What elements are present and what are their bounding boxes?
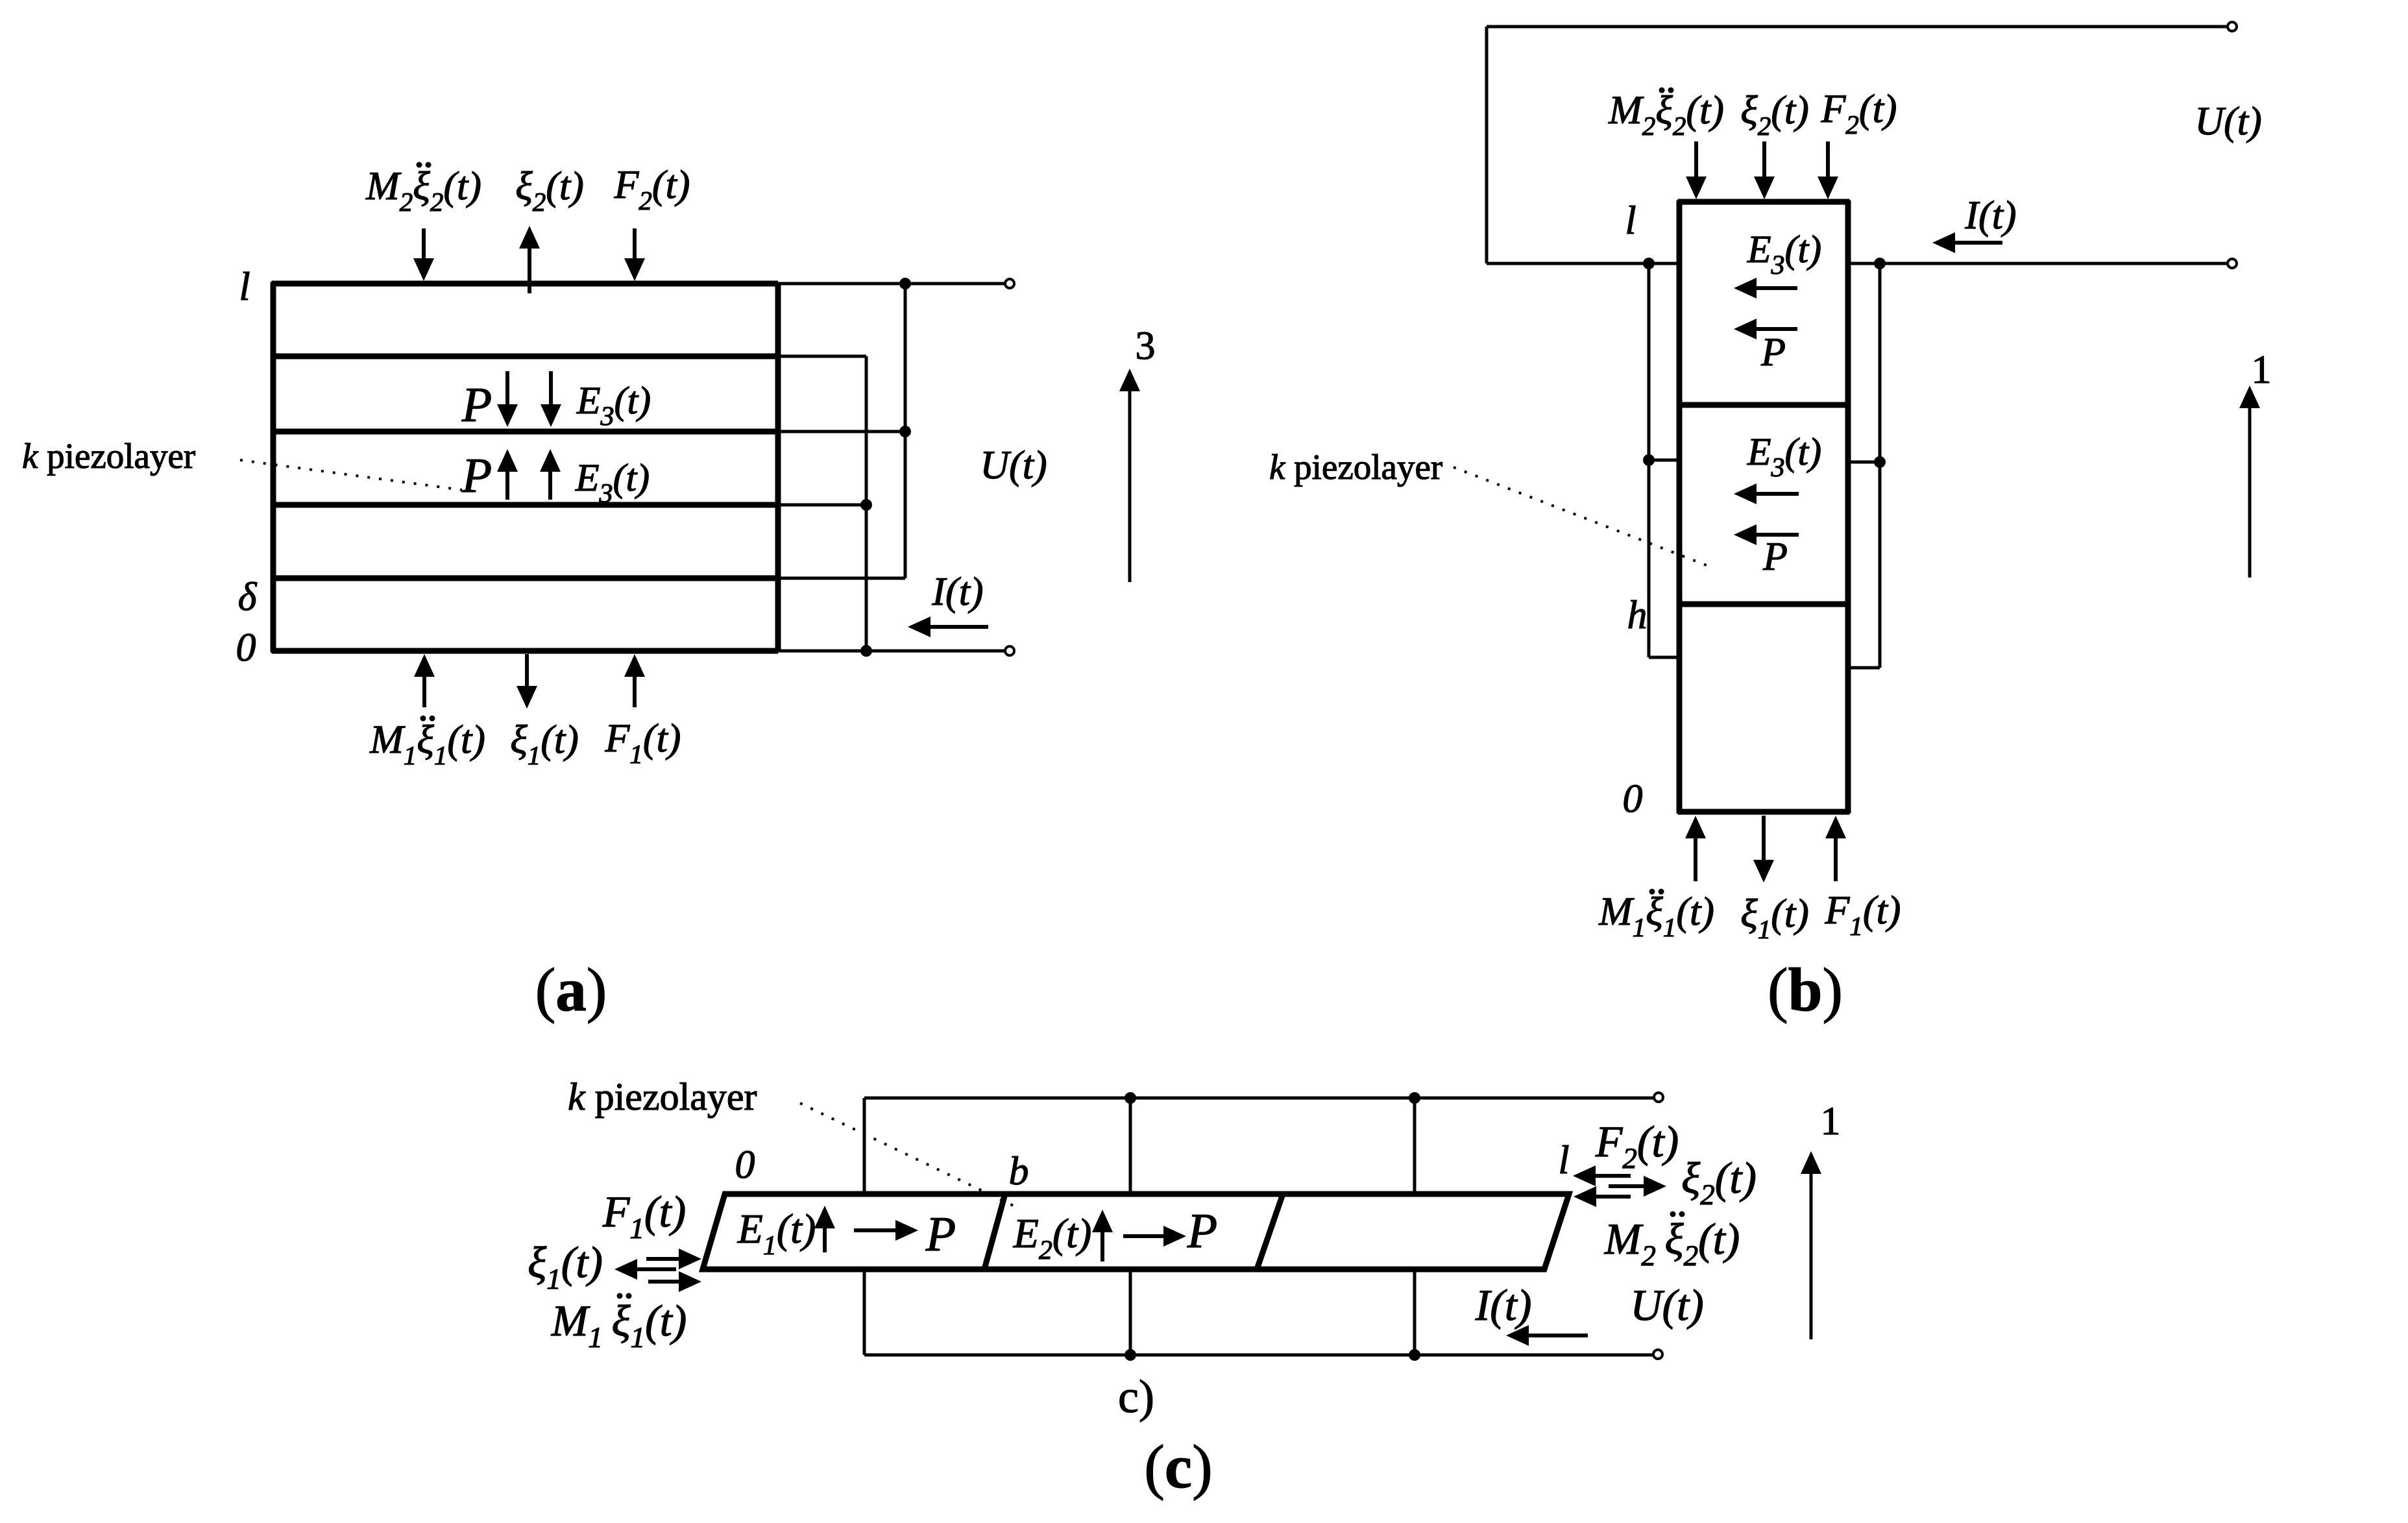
terminal: lower (c) [1653, 1350, 1662, 1359]
electrode wire 2 upper (c) [1129, 1098, 1132, 1194]
terminal: lower (b) [2228, 259, 2237, 268]
svg-text:M1​ ξ1​(t): M1​ ξ1​(t) [551, 1296, 687, 1354]
stack (a) electrode line 3 [272, 429, 779, 435]
arrow P left seg1 (b) [1755, 327, 1797, 331]
svg-text:ξ2​(t): ξ2​(t) [1681, 1153, 1757, 1211]
svg-text:P: P [1760, 330, 1786, 374]
node: bus A / electrode 3 [899, 426, 911, 437]
svg-text:P: P [1187, 1204, 1217, 1258]
svg-text:k piezolayer: k piezolayer [1269, 447, 1442, 487]
arrow E left 1 seg2 (b) [1755, 492, 1799, 496]
node: bus B / bottom wire [860, 645, 872, 657]
arrow I(t) left (c) [1527, 1334, 1588, 1337]
stub left tap 2 (b) [1649, 459, 1679, 462]
electrode wire 2 lower (c) [1129, 1269, 1132, 1355]
svg-text:l: l [1558, 1138, 1569, 1182]
node: bus B / electrode 4 [860, 499, 872, 511]
arrow: xi2(t) up (a) [528, 247, 531, 293]
arrow P up 1 (a) [505, 470, 509, 500]
stack (a) electrode line 2 [272, 354, 779, 359]
svg-text:M2​ ξ2​(t): M2​ ξ2​(t) [1604, 1214, 1740, 1272]
node: bottom rail 3 (c) [1409, 1349, 1420, 1361]
stack (b) bottom edge (0) [1678, 809, 1850, 815]
svg-text:k piezolayer: k piezolayer [568, 1075, 757, 1118]
arrow: F1(t) up (a) [633, 676, 637, 707]
svg-text:F1​(t): F1​(t) [602, 1187, 686, 1245]
arrow P down 1 (a) [505, 371, 509, 406]
svg-text:δ: δ [238, 575, 258, 619]
wire: electrode 2 to bus B [778, 355, 866, 358]
arrow I(t) left (b) [1954, 241, 2002, 245]
terminal: upper (c) [1654, 1093, 1663, 1102]
svg-text:P: P [461, 378, 492, 432]
arrow I(t) left (a) [929, 625, 988, 629]
terminal: lower (a) [1005, 646, 1014, 655]
node: right bus tap1 (b) [1874, 258, 1886, 269]
arrow F2 down (b) [1826, 141, 1830, 178]
svg-text:1: 1 [1821, 1099, 1841, 1143]
arrow F2 left (c) [1594, 1174, 1631, 1178]
svg-text:I(t): I(t) [1475, 1280, 1532, 1330]
bus left jog (b) [1649, 656, 1679, 659]
leader dotted line (a) [240, 460, 462, 490]
arrow: F2(t) down (a) [633, 228, 637, 260]
wire: left tap 1 (b) [1487, 262, 1679, 265]
svg-text:1: 1 [2252, 348, 2272, 392]
node: bottom rail 2 (c) [1125, 1349, 1136, 1361]
svg-text:U(t): U(t) [1630, 1280, 1703, 1330]
arrow: xi1(t) down (a) [525, 654, 529, 687]
bus right (b) [1879, 263, 1882, 668]
axis arrow 3 (a) [1128, 390, 1132, 582]
stack (a) top electrode line (l) [272, 281, 779, 287]
svg-text:l: l [1625, 199, 1636, 243]
terminal: upper (a) [1005, 279, 1014, 288]
arrow: M2 xidd2(t) down (a) [422, 228, 426, 260]
wire: left feed vertical (b) [1485, 27, 1489, 263]
svg-text:l: l [239, 265, 250, 309]
stack (a) right edge [775, 282, 781, 653]
arrow E left 1 seg1 (b) [1755, 286, 1797, 290]
svg-text:P: P [925, 1207, 956, 1261]
bus A (odd electrodes) [904, 284, 907, 578]
svg-text:c): c) [1118, 1371, 1154, 1422]
arrow M1 up (b) [1694, 837, 1697, 881]
arrow P left seg2 (b) [1755, 533, 1799, 537]
stack (b) divider 1 [1678, 402, 1850, 408]
arrow xi1 down (b) [1762, 816, 1766, 861]
arrow xi2 down (b) [1762, 141, 1766, 178]
electrode wire 1 lower (c) [863, 1269, 866, 1355]
svg-text:(b): (b) [1768, 955, 1843, 1024]
arrow E up 2 (a) [548, 470, 552, 500]
stack (a) left edge [271, 282, 276, 653]
arrow P right cell1 (c) [854, 1228, 897, 1232]
svg-text:3: 3 [1136, 324, 1156, 368]
terminal: upper (b) [2228, 22, 2237, 31]
wire: right tap 1 to terminal (b) [1848, 262, 2228, 265]
svg-text:U(t): U(t) [980, 443, 1047, 487]
arrow M2 down (b) [1694, 141, 1698, 178]
ddots over xi1 bottom (a) [420, 716, 426, 722]
arrow P right cell2 (c) [1123, 1234, 1165, 1238]
top rail (c) [864, 1097, 1653, 1100]
svg-text:0: 0 [1623, 777, 1643, 821]
arrow F1 right (c) [646, 1257, 680, 1261]
stack (b) right edge [1845, 201, 1851, 814]
stack (b) divider 2 (h) [1678, 602, 1850, 607]
axis arrow 1 (b) [2248, 407, 2252, 578]
svg-text:P: P [1762, 535, 1788, 579]
bus right jog (b) [1848, 666, 1880, 670]
svg-text:I(t): I(t) [1964, 193, 2016, 238]
wire: electrode 5 to bus A [778, 577, 905, 580]
arrow E down 2 (a) [549, 371, 553, 406]
ddots over xi2 (b) [1659, 88, 1665, 93]
bar divider 2 (c) [1257, 1194, 1283, 1269]
svg-text:b: b [1009, 1149, 1029, 1193]
wire: bottom electrode to lower terminal [778, 650, 1004, 653]
arrow F1 up (b) [1834, 837, 1838, 881]
axis arrow 1 (c) [1810, 1173, 1813, 1339]
svg-text:h: h [1627, 593, 1648, 637]
arrow xi2 right (c) [1609, 1184, 1645, 1188]
svg-text:0: 0 [735, 1143, 755, 1187]
svg-text:k piezolayer: k piezolayer [22, 436, 195, 476]
wire: top electrode to upper terminal [778, 282, 1004, 286]
svg-text:0: 0 [236, 626, 256, 670]
svg-text:ξ1​(t): ξ1​(t) [528, 1237, 603, 1295]
svg-text:I(t): I(t) [931, 570, 983, 614]
svg-text:(c): (c) [1144, 1432, 1212, 1501]
leader dotted line (b) [1453, 467, 1713, 568]
stack (b) left edge [1677, 201, 1683, 814]
wire: electrode 3 to bus A [778, 430, 905, 433]
stack (b) top edge (l) [1678, 199, 1850, 205]
svg-text:F2​(t): F2​(t) [1595, 1117, 1679, 1175]
arrow xi1 left (c) [636, 1267, 676, 1271]
arrow E up cell2 (c) [1101, 1231, 1104, 1261]
ddots over xi1 (c) [617, 1293, 623, 1299]
node: top rail 2 (c) [1125, 1092, 1136, 1104]
bus B (even electrodes) [865, 356, 868, 651]
stub right tap 2 (b) [1848, 461, 1880, 464]
ddots over xi2 top (a) [417, 162, 422, 168]
bar outline (c) [703, 1194, 1569, 1269]
node: right bus tap2 (b) [1874, 456, 1886, 468]
electrode wire 3 lower (c) [1413, 1269, 1417, 1355]
ddots over xi2 (c) [1670, 1212, 1676, 1217]
leader dotted line (c) [800, 1103, 1019, 1208]
stack (a) electrode line 4 [272, 502, 779, 508]
ddots over xi1 (b) [1649, 889, 1655, 895]
bus left (b) [1648, 263, 1651, 657]
node: top rail 3 (c) [1409, 1092, 1420, 1104]
electrode wire 1 upper (c) [863, 1098, 866, 1194]
arrow M1 right (c) [648, 1280, 680, 1284]
node: left bus tap1 (b) [1643, 258, 1655, 269]
svg-text:U(t): U(t) [2195, 99, 2261, 143]
arrow E up cell1 (c) [823, 1227, 827, 1252]
wire: top feed (b) [1487, 25, 2228, 29]
arrow: M1 xidd1(t) up (a) [422, 676, 426, 707]
svg-text:(a): (a) [535, 955, 607, 1024]
bar divider 1 (c) [984, 1194, 1005, 1269]
stack (a) bottom electrode line (0) [272, 648, 779, 654]
svg-text:P: P [461, 448, 492, 503]
arrow M2 left (c) [1595, 1195, 1631, 1199]
stack (a) electrode line 5 (delta) [272, 576, 779, 581]
node: bus A / top wire [899, 278, 911, 289]
node: left bus tap2 (b) [1643, 454, 1655, 466]
electrode wire 3 upper (c) [1413, 1098, 1417, 1194]
wire: electrode 4 to bus B [778, 504, 866, 507]
bottom rail (c) [864, 1354, 1653, 1357]
